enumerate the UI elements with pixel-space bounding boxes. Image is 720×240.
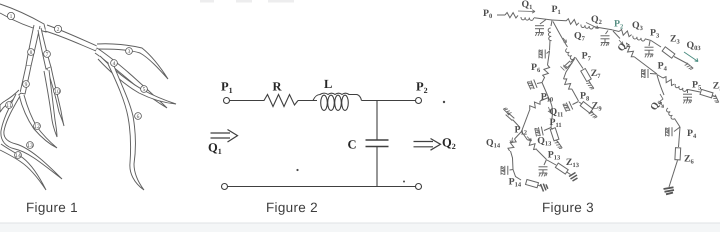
branch P12 to P13 (Q13) xyxy=(522,132,528,141)
svg-text:2: 2 xyxy=(57,27,60,33)
svg-text:L: L xyxy=(324,77,332,91)
labels fig2 xyxy=(208,77,456,156)
svg-text:Figure 2: Figure 2 xyxy=(266,200,318,215)
inductor seg3 xyxy=(632,36,645,42)
circled numbers xyxy=(6,12,148,159)
node 12 xyxy=(34,123,41,130)
wire to P12 node xyxy=(522,109,531,132)
node 1 xyxy=(7,12,14,19)
capacitor at N5 xyxy=(687,90,689,94)
node 6 xyxy=(135,113,142,120)
Q7 arrowhead xyxy=(563,38,567,43)
impedance Z14 box xyxy=(526,179,539,187)
branch P10 down to Q11/P11 xyxy=(549,98,553,128)
svg-text:Figure 1: Figure 1 xyxy=(26,200,78,215)
wire to P8 node xyxy=(572,89,579,101)
capacitor at N7 (left stub) xyxy=(547,51,550,54)
svg-text:6: 6 xyxy=(137,114,140,120)
capacitor C plates xyxy=(366,139,389,141)
inductor seg2 xyxy=(581,25,594,30)
ground Z7 xyxy=(586,82,594,91)
Q6 lightning arrow xyxy=(660,94,664,108)
wire P0 to R1 xyxy=(497,14,505,16)
trunk wire xyxy=(548,51,550,65)
Q1 arrow xyxy=(518,10,535,13)
vessel segment 6 xyxy=(108,61,144,190)
trunk wire to P10 xyxy=(542,83,549,98)
wire P13 to Z13 xyxy=(547,160,556,165)
wire P1-P2 xyxy=(552,19,566,22)
branch P4 down (Q6) xyxy=(657,75,664,95)
node 10 xyxy=(54,88,61,95)
vessel segment 5 xyxy=(98,56,176,104)
svg-text:3: 3 xyxy=(128,49,131,55)
vessel segment 2 xyxy=(45,25,97,51)
capacitor at P3 xyxy=(649,41,650,46)
flow arrow Q1 xyxy=(211,130,238,143)
flow arrow Q2 xyxy=(414,139,441,151)
node 5 xyxy=(141,86,148,93)
node 14 xyxy=(15,152,22,159)
wire to P3 node xyxy=(645,39,651,41)
inductor trunk xyxy=(548,28,552,41)
vessel segment 4 xyxy=(95,48,167,108)
capacitor at P1 xyxy=(540,20,546,25)
vessel segment 12 xyxy=(19,95,57,148)
wire P2-P3 xyxy=(612,30,619,32)
ground Z11 xyxy=(555,141,563,150)
branch P2 to P4 xyxy=(613,31,620,39)
resistor seg3 xyxy=(618,29,632,37)
node 8 xyxy=(28,49,35,56)
bottom bar xyxy=(0,223,720,232)
fig3 labels xyxy=(483,0,720,189)
svg-text:1: 1 xyxy=(10,14,13,20)
vessel segment 9 xyxy=(20,66,31,94)
vessel segment 14 xyxy=(0,144,46,190)
Q4 arrow xyxy=(619,40,623,45)
svg-text:5: 5 xyxy=(143,87,146,93)
capacitor at P8 (left stub) xyxy=(573,102,579,105)
svg-text:14: 14 xyxy=(15,153,21,159)
ground Z13 xyxy=(569,173,578,182)
resistor seg5 xyxy=(662,76,676,87)
faint cropped-text remnants at top xyxy=(200,0,294,3)
node 2 xyxy=(54,25,61,32)
wire to N6 node xyxy=(675,119,681,128)
node 3 xyxy=(126,48,133,55)
wire to P1 xyxy=(534,18,552,20)
inductor seg6 xyxy=(666,108,675,120)
impedance Z11 box xyxy=(551,128,553,130)
wire to N5 node xyxy=(687,89,689,91)
trunk vessel 1 xyxy=(0,4,46,32)
svg-text:7: 7 xyxy=(46,52,49,58)
wire to P7 node xyxy=(574,57,575,59)
svg-text:8: 8 xyxy=(30,50,33,56)
wire down to N10 xyxy=(511,151,514,170)
svg-text:9: 9 xyxy=(25,82,28,88)
resistor seg13 xyxy=(526,138,539,151)
inductor seg1 xyxy=(521,17,534,21)
resistor R xyxy=(261,95,298,107)
wire P4 down-right xyxy=(657,75,663,79)
wire to P4 node xyxy=(635,57,658,74)
capacitor stub up-left xyxy=(537,83,542,84)
vessel segment 11 xyxy=(0,90,21,112)
wire N5 to Z5 xyxy=(688,90,700,93)
node 4 xyxy=(111,60,118,67)
capacitor at P13 xyxy=(544,160,547,166)
ground pad Z6 xyxy=(664,187,675,194)
resistor seg2 xyxy=(566,18,580,25)
capacitor at N10 (left stub) xyxy=(510,169,514,172)
stray dots xyxy=(296,101,445,183)
capacitor at P2 xyxy=(606,31,609,35)
svg-text:10: 10 xyxy=(54,89,60,95)
branch P12 down (Q14) xyxy=(515,132,522,140)
node 13 xyxy=(27,142,34,149)
ground Z3 xyxy=(685,63,694,71)
svg-text:Figure 3: Figure 3 xyxy=(542,200,594,215)
Q14 arrow xyxy=(510,138,513,144)
vessel segment 8 xyxy=(26,25,40,66)
wire xyxy=(298,100,317,102)
capacitor stub P12 up-left xyxy=(513,120,521,128)
impedance Z5 box xyxy=(700,89,713,97)
trunk: P1 down inductor xyxy=(551,21,552,27)
wire Z3 to ground xyxy=(674,57,688,65)
node 7 xyxy=(44,51,51,58)
wire P7 down to P8 xyxy=(564,59,575,79)
capacitor at P4 (left stub) xyxy=(650,73,657,76)
trunk wire to stub xyxy=(542,78,545,83)
vessel segment 7 xyxy=(38,28,51,69)
Q03 arrow teal xyxy=(684,52,698,62)
wire to N7 xyxy=(549,41,552,51)
svg-text:C: C xyxy=(348,138,357,152)
resistor on P8 chain xyxy=(562,77,574,90)
branch P1 to P7 xyxy=(553,22,568,48)
wire P7 to Z7 xyxy=(576,58,584,69)
svg-text:Z5: Z5 xyxy=(713,80,720,92)
node 11 xyxy=(6,102,13,109)
wire N10 to P14 xyxy=(513,170,521,181)
resistor seg10 xyxy=(528,99,541,111)
node / capacitor branch xyxy=(376,101,378,141)
ground Z14 xyxy=(541,184,548,192)
vessel segment 10b xyxy=(44,70,57,137)
inductor seg5 xyxy=(674,84,687,92)
wire Z13 to ground xyxy=(567,172,571,175)
inductor on Q7 branch xyxy=(565,49,574,61)
vessel segment 10a xyxy=(47,67,64,126)
resistor seg4 xyxy=(624,45,636,58)
resistor seg1 xyxy=(505,12,518,18)
impedance Z13 box xyxy=(555,163,568,174)
Q11 arrowhead xyxy=(548,107,551,113)
Q2 arrow xyxy=(586,23,599,29)
node 9 xyxy=(23,81,30,88)
terminal P2 xyxy=(416,98,422,104)
inductor L xyxy=(313,93,362,100)
wire xyxy=(230,100,262,102)
svg-text:R: R xyxy=(273,80,283,94)
capacitor at P11 (left stub) xyxy=(544,128,551,131)
wire P8 to Z9 xyxy=(579,102,582,104)
wire to P2 node xyxy=(594,27,612,30)
branch P10 to P12 xyxy=(540,98,549,102)
resistor seg14 xyxy=(507,138,517,152)
wire to P13 node xyxy=(537,150,547,160)
wire Z7 to ground xyxy=(589,81,591,84)
Q13 arrowhead xyxy=(527,137,532,142)
capacitor at P7 (left stub) xyxy=(571,58,576,63)
svg-text:4: 4 xyxy=(113,61,116,67)
wire N6 to Z6 xyxy=(679,127,681,147)
wire Z6 to ground xyxy=(669,160,678,187)
impedance Z6 box xyxy=(675,148,681,160)
vessel segment 13 xyxy=(1,94,62,179)
wire xyxy=(362,100,416,102)
ground Z9 xyxy=(589,111,598,119)
impedance Z3 box xyxy=(662,47,675,58)
vessel segment 3 xyxy=(96,44,168,79)
svg-text:11: 11 xyxy=(6,103,12,109)
resistor trunk xyxy=(542,64,550,78)
impedance Z7 box xyxy=(581,69,592,82)
ground Z5 xyxy=(712,95,719,104)
impedance Z9 box xyxy=(580,102,593,113)
wire Z11 to ground xyxy=(557,140,559,143)
wire Z5 to ground xyxy=(713,96,717,98)
wire Z14 to ground xyxy=(538,184,541,187)
terminal P1 xyxy=(224,98,230,104)
svg-text:13: 13 xyxy=(27,143,33,149)
svg-text:12: 12 xyxy=(34,124,40,130)
bottom wire xyxy=(222,184,228,190)
capacitor at N6 (left stub) xyxy=(674,127,680,132)
wire Z9 to ground xyxy=(591,111,593,113)
wire P3 to Z3 xyxy=(651,41,661,48)
